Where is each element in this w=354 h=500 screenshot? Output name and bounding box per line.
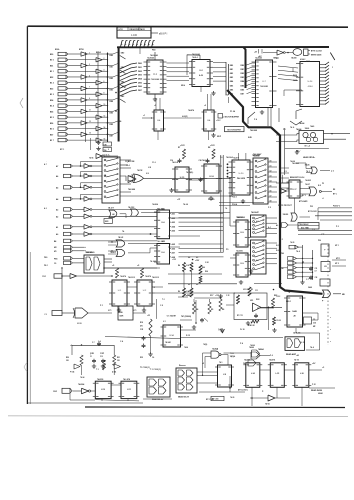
svg-text:T·1 C100 (1): T·1 C100 (1) <box>150 369 161 371</box>
svg-text:+5: +5 <box>202 363 204 365</box>
svg-text:BIT CLOCK: BIT CLOCK <box>308 211 318 213</box>
svg-text:DB5: DB5 <box>138 82 142 84</box>
svg-text:RE: RE <box>333 189 335 191</box>
svg-text:U-20: U-20 <box>239 173 245 175</box>
svg-text:74LS04: 74LS04 <box>226 156 234 159</box>
svg-text:U·1: U·1 <box>163 321 166 323</box>
svg-text:P·2: P·2 <box>312 229 315 231</box>
svg-text:74·05: 74·05 <box>290 241 294 244</box>
svg-text:DB3: DB3 <box>121 96 124 98</box>
svg-text:+5: +5 <box>204 105 206 107</box>
svg-text:A·3: A·3 <box>44 207 47 210</box>
svg-text:P·22: P·22 <box>312 384 316 386</box>
svg-text:74LS04: 74LS04 <box>152 203 158 206</box>
svg-text:C11: C11 <box>255 290 258 292</box>
svg-text:SECTOR BUFFER: SECTOR BUFFER <box>227 130 241 132</box>
svg-text:·4: ·4 <box>322 197 324 200</box>
svg-text:J-100: J-100 <box>131 34 138 37</box>
svg-text:DB6: DB6 <box>241 89 245 91</box>
svg-text:74LS(4): 74LS(4) <box>212 348 219 351</box>
svg-text:DB3: DB3 <box>138 75 142 77</box>
svg-text:6B7: 6B7 <box>230 94 233 96</box>
svg-text:C·1: C·1 <box>280 239 283 241</box>
svg-text:WRITE PROTECT: WRITE PROTECT <box>278 205 293 207</box>
svg-text:A01: A01 <box>172 213 175 216</box>
svg-text:+12V: +12V <box>216 120 221 122</box>
svg-text:B1 0: B1 0 <box>50 60 54 62</box>
svg-text:6B4: 6B4 <box>230 80 233 83</box>
svg-text:74·1: 74·1 <box>219 361 222 364</box>
svg-text:C30: C30 <box>313 323 316 325</box>
svg-text:D·01: D·01 <box>276 245 280 247</box>
svg-text:74·04: 74·04 <box>80 376 84 379</box>
svg-text:FL·18: FL·18 <box>240 329 245 331</box>
svg-text:( SECTOR BUFFER: ( SECTOR BUFFER <box>224 117 240 119</box>
svg-text:R7 C11: R7 C11 <box>237 315 243 317</box>
svg-text:10: 10 <box>85 174 87 176</box>
svg-text:U·8: U·8 <box>223 374 226 376</box>
svg-text:R1B 2.2K: R1B 2.2K <box>248 325 256 327</box>
svg-text:DB7: DB7 <box>138 90 142 92</box>
svg-text:74LS86: 74LS86 <box>128 188 136 191</box>
svg-text:74L86: 74L86 <box>305 164 310 167</box>
svg-text:Q1R2: Q1R2 <box>90 353 94 355</box>
svg-text:74004: 74004 <box>250 344 255 347</box>
svg-text:U·8: U·8 <box>148 167 151 169</box>
svg-text:R22: R22 <box>256 299 259 301</box>
svg-text:Q·1: Q·1 <box>218 329 221 331</box>
svg-text:DB1: DB1 <box>138 67 142 69</box>
svg-text:B4: B4 <box>54 240 56 243</box>
svg-text:R6: R6 <box>178 291 180 293</box>
svg-text:A03: A03 <box>172 221 175 224</box>
svg-text:+: + <box>330 317 331 319</box>
svg-text:WRITE GATE: WRITE GATE <box>311 54 322 57</box>
svg-text:P40·1: P40·1 <box>286 300 291 303</box>
svg-text:A6: A6 <box>56 175 58 178</box>
svg-text:M2: M2 <box>54 247 57 249</box>
svg-text:6B6: 6B6 <box>230 89 233 91</box>
svg-text:74LS240: 74LS240 <box>85 251 92 254</box>
svg-text:74LS·4: 74LS·4 <box>172 161 179 164</box>
svg-text:P40: P40 <box>152 49 155 52</box>
svg-text:+12V: +12V <box>188 291 193 293</box>
svg-text:P·4: P·4 <box>270 354 273 357</box>
svg-text:C10: C10 <box>100 356 103 358</box>
svg-text:CQBR·748: CQBR·748 <box>125 160 134 163</box>
svg-text:6B5: 6B5 <box>230 85 233 87</box>
svg-text:74LS047: 74LS047 <box>252 154 260 157</box>
svg-text:DB0: DB0 <box>138 63 142 65</box>
svg-text:B54: B54 <box>50 99 53 102</box>
svg-text:U·4: U·4 <box>157 119 160 122</box>
svg-text:5448: 5448 <box>308 286 312 289</box>
svg-text:CLR: CLR <box>53 391 58 393</box>
svg-text:+12V: +12V <box>210 145 215 147</box>
svg-text:74LS74: 74LS74 <box>128 276 136 279</box>
svg-text:6B2: 6B2 <box>230 73 233 75</box>
svg-text:MEAD SEL·W: MEAD SEL·W <box>178 396 189 399</box>
svg-text:74LS244: 74LS244 <box>192 53 201 56</box>
svg-text:BT·C100·: BT·C100· <box>206 399 215 401</box>
svg-text:R51: R51 <box>117 357 120 359</box>
svg-text:BYTE CLOCK: BYTE CLOCK <box>311 51 323 53</box>
svg-text:15: 15 <box>89 133 91 135</box>
svg-text:C·9: C·9 <box>160 305 163 307</box>
svg-text:74LS90: 74LS90 <box>250 129 258 132</box>
svg-text:PAL16R8: PAL16R8 <box>237 177 245 180</box>
svg-text:4·2: 4·2 <box>256 259 259 262</box>
svg-text:A05: A05 <box>172 243 175 246</box>
svg-text:330: 330 <box>117 360 120 362</box>
svg-text:+: + <box>330 341 331 343</box>
svg-text:(BT CLOCK ): (BT CLOCK ) <box>238 390 248 392</box>
svg-text:74LS·R: 74LS·R <box>233 157 240 160</box>
svg-text:B51: B51 <box>50 65 53 67</box>
svg-text:BT50: BT50 <box>79 49 84 51</box>
svg-text:R4: R4 <box>196 308 198 311</box>
svg-text:DB3: DB3 <box>110 89 113 91</box>
svg-text:74LS74: 74LS74 <box>152 276 160 279</box>
svg-text:74B04: 74B04 <box>258 348 265 351</box>
svg-text:T1 C100 (1): T1 C100 (1) <box>140 367 150 369</box>
svg-text:4·7: 4·7 <box>256 220 259 223</box>
svg-text:A05: A05 <box>172 230 175 233</box>
svg-text:4164: 4164 <box>308 86 314 88</box>
svg-text:P34·4: P34·4 <box>232 196 237 199</box>
svg-text:74·S·: 74·S· <box>290 126 295 129</box>
svg-text:P2: P2 <box>322 183 324 185</box>
svg-text:L-35: L-35 <box>275 373 279 375</box>
svg-text:1: 1 <box>332 67 333 69</box>
svg-text:A1: A1 <box>56 226 58 229</box>
svg-text:PB1: PB1 <box>54 258 58 260</box>
svg-text:R1·2.2: R1·2.2 <box>277 320 282 322</box>
svg-text:R8: R8 <box>208 147 210 149</box>
svg-text:T·1: T·1 <box>96 369 99 371</box>
svg-text:B·C +6: B·C +6 <box>305 146 310 148</box>
svg-text:DB7: DB7 <box>241 94 245 96</box>
svg-text:C4: C4 <box>152 356 154 359</box>
svg-text:DB0: DB0 <box>110 55 113 57</box>
svg-text:74LS05: 74LS05 <box>305 179 311 182</box>
svg-text:T·2: T·2 <box>162 299 165 301</box>
svg-text:9: 9 <box>108 149 109 151</box>
svg-text:R5: R5 <box>196 257 198 259</box>
svg-text:B·2: B·2 <box>318 185 321 187</box>
svg-text:B1 3: B1 3 <box>50 94 54 96</box>
svg-text:DB5: DB5 <box>110 112 113 114</box>
svg-text:DB4: DB4 <box>110 100 113 103</box>
svg-text:+5: +5 <box>322 367 324 369</box>
svg-text:HEAD: HEAD <box>318 392 324 395</box>
svg-text:R4: R4 <box>188 256 190 259</box>
svg-text:DB2: DB2 <box>110 78 113 80</box>
svg-text:R8: R8 <box>196 284 198 286</box>
svg-text:12: 12 <box>85 196 87 198</box>
svg-text:11: 11 <box>89 110 91 112</box>
svg-text:BY 2: BY 2 <box>302 195 306 197</box>
svg-text:74·LS74: 74·LS74 <box>123 378 130 381</box>
svg-text:DB0: DB0 <box>241 65 245 67</box>
svg-text:R66: R66 <box>205 271 208 273</box>
svg-text:B1 1: B1 1 <box>50 71 54 73</box>
svg-text:14 FL·18: 14 FL·18 <box>293 332 300 335</box>
svg-text:DB0: DB0 <box>121 53 124 55</box>
svg-text:A01: A01 <box>162 208 165 211</box>
svg-text:74LS244: 74LS244 <box>151 78 160 81</box>
svg-text:▸B 8 P I: ▸B 8 P I <box>159 32 168 35</box>
svg-text:74·: 74· <box>288 291 291 294</box>
svg-text:9 P1: 9 P1 <box>133 310 137 312</box>
svg-text:P·1: P·1 <box>100 305 103 307</box>
svg-text:BT·0: BT·0 <box>122 86 126 88</box>
svg-text:A-50: A-50 <box>199 74 203 77</box>
svg-text:READ DATA: READ DATA <box>311 389 322 392</box>
svg-text:74LS244: 74LS244 <box>150 54 159 57</box>
svg-text:B1 4: B1 4 <box>50 105 54 108</box>
svg-text:C·7: C·7 <box>92 342 95 344</box>
svg-text:D·02: D·02 <box>276 250 280 252</box>
svg-text:DB2: DB2 <box>241 73 245 75</box>
svg-text:R5: R5 <box>211 309 213 311</box>
svg-text:EGC TIME: EGC TIME <box>301 228 309 230</box>
svg-text:74LS04: 74LS04 <box>292 162 300 165</box>
svg-text:DB1: DB1 <box>110 66 113 68</box>
svg-text:B1 6: B1 6 <box>50 129 54 131</box>
svg-text:U·14: U·14 <box>170 334 174 337</box>
svg-text:B1 2: B1 2 <box>50 83 54 85</box>
svg-text:A4: A4 <box>56 198 58 201</box>
svg-text:8-TK: 8-TK <box>119 29 124 31</box>
svg-text:A3: A3 <box>56 208 58 211</box>
svg-text:U-10: U-10 <box>101 389 105 391</box>
svg-text:DB6: DB6 <box>110 124 113 126</box>
svg-text:U31: U31 <box>250 300 253 302</box>
svg-text:B1 7: B1 7 <box>50 140 54 142</box>
svg-text:DB6: DB6 <box>138 86 142 88</box>
svg-text:74LS74: 74LS74 <box>188 109 194 112</box>
svg-text:74LS74: 74LS74 <box>145 275 151 278</box>
svg-text:R50: R50 <box>66 357 69 359</box>
svg-text:R17: R17 <box>210 295 213 297</box>
svg-text:+5: +5 <box>70 345 72 347</box>
svg-text:C·4: C·4 <box>98 340 101 343</box>
svg-text:PB·1: PB·1 <box>44 265 48 267</box>
svg-text:DB3: DB3 <box>241 77 245 79</box>
svg-text:74LS74: 74LS74 <box>244 359 250 362</box>
svg-text:R18: R18 <box>140 322 143 324</box>
svg-text:MOD: MOD <box>77 323 83 325</box>
svg-text:B1 5: B1 5 <box>50 117 54 119</box>
svg-text:A5: A5 <box>56 186 58 189</box>
svg-text:P·2: P·2 <box>336 226 339 228</box>
svg-text:R22: R22 <box>274 295 277 297</box>
svg-text:A0: A0 <box>56 233 58 236</box>
svg-text:A·1: A·1 <box>268 226 271 229</box>
svg-text:R66: R66 <box>202 267 205 269</box>
svg-text:74·: 74· <box>225 207 228 210</box>
svg-text:B53: B53 <box>50 88 53 90</box>
svg-text:R7: R7 <box>178 147 180 149</box>
svg-text:A07: A07 <box>172 252 175 255</box>
svg-text:MT·1: MT·1 <box>336 258 340 260</box>
svg-text:A7: A7 <box>56 165 58 168</box>
svg-text:P4·+RD: P4·+RD <box>208 198 215 201</box>
svg-text:74·05: 74·05 <box>265 403 270 406</box>
svg-text:DB5: DB5 <box>241 85 245 87</box>
svg-text:C·7: C·7 <box>306 279 309 281</box>
svg-text:74LS04: 74LS04 <box>78 383 84 386</box>
svg-text:C32: C32 <box>315 277 318 279</box>
svg-text:6B3: 6B3 <box>230 77 233 79</box>
svg-text:330: 330 <box>66 360 69 362</box>
svg-text:P·2: P·2 <box>268 207 271 209</box>
svg-text:MT·2: MT·2 <box>335 263 339 265</box>
svg-text:U31·R: U31·R <box>243 289 249 291</box>
svg-text:U30: U30 <box>324 266 327 268</box>
svg-text:U-17: U-17 <box>293 189 297 191</box>
svg-text:U-7: U-7 <box>276 58 279 60</box>
svg-text:DB2: DB2 <box>138 71 142 73</box>
svg-text:74·74: 74·74 <box>294 359 299 362</box>
svg-text:DB4: DB4 <box>241 80 245 83</box>
svg-text:P·1: P·1 <box>283 129 286 131</box>
svg-text:DB7: DB7 <box>110 135 113 137</box>
svg-text:R3: R3 <box>251 289 253 291</box>
svg-text:U·8: U·8 <box>146 173 149 175</box>
svg-text:A·7: A·7 <box>44 163 47 166</box>
svg-text:R52: R52 <box>140 357 143 359</box>
svg-text:74·LS(S)·: 74·LS(S)· <box>186 171 194 174</box>
svg-text:C0: C0 <box>54 263 56 265</box>
svg-text:74LS·4: 74LS·4 <box>202 159 209 162</box>
svg-text:74L574: 74L574 <box>269 359 275 362</box>
svg-text:U·4: U·4 <box>208 119 211 122</box>
svg-text:B50: B50 <box>50 54 53 56</box>
svg-text:R6: R6 <box>188 284 190 286</box>
svg-text:74(S)4: 74(S)4 <box>230 355 235 358</box>
svg-text:74LS+: 74LS+ <box>104 155 111 157</box>
svg-text:U·5: U·5 <box>284 171 287 173</box>
svg-text:11: 11 <box>85 185 87 187</box>
svg-text:B52: B52 <box>50 77 53 79</box>
svg-text:74·2: 74·2 <box>306 170 310 173</box>
svg-text:P3·: P3· <box>226 249 229 251</box>
svg-text:16: 16 <box>104 138 106 140</box>
svg-text:U-24: U-24 <box>308 81 314 83</box>
svg-text:9 P1: 9 P1 <box>108 310 112 312</box>
svg-text:74LS·4: 74LS·4 <box>192 56 198 59</box>
svg-text:+: + <box>330 329 331 331</box>
svg-text:BT·1: BT·1 <box>60 149 64 151</box>
svg-text:1·6: 1·6 <box>220 157 223 159</box>
svg-text:B57: B57 <box>50 134 53 136</box>
svg-text:74·05: 74·05 <box>230 396 234 399</box>
svg-text:HEAD DRIVE+: HEAD DRIVE+ <box>303 156 315 159</box>
svg-text:P22: P22 <box>310 206 313 208</box>
svg-text:+5: +5 <box>154 105 156 107</box>
svg-text:B55: B55 <box>50 111 53 113</box>
svg-text:74LS74: 74LS74 <box>120 275 126 278</box>
svg-text:74L5390: 74L5390 <box>236 250 243 253</box>
svg-text:74LS·R: 74LS·R <box>110 251 117 254</box>
svg-text:74·240: 74·240 <box>150 260 156 263</box>
svg-text:C1DP: C1DP <box>100 353 104 355</box>
svg-text:74(S): 74(S) <box>203 343 208 346</box>
svg-text:A05: A05 <box>162 240 165 243</box>
svg-text:P26: P26 <box>318 240 321 242</box>
svg-text:74L5390: 74L5390 <box>236 216 243 219</box>
svg-text:T47 (P4000): T47 (P4000) <box>181 315 191 318</box>
svg-text:Reamer: Reamer <box>179 365 186 367</box>
svg-text:P1·4: P1·4 <box>126 164 130 167</box>
svg-text:P40: P40 <box>281 252 284 255</box>
svg-text:12: 12 <box>104 115 106 117</box>
svg-text:13: 13 <box>89 121 91 123</box>
svg-text:A2: A2 <box>56 215 58 218</box>
svg-text:MF: MF <box>313 326 315 328</box>
svg-text:74·: 74· <box>122 230 125 233</box>
svg-text:C1: C1 <box>90 356 92 358</box>
svg-text:4164·2: 4164·2 <box>300 58 305 61</box>
svg-text:MT·1: MT·1 <box>335 245 339 247</box>
svg-text:R6: R6 <box>222 309 224 311</box>
svg-text:C31: C31 <box>315 268 318 270</box>
svg-text:M1: M1 <box>54 251 57 253</box>
svg-text:+12: +12 <box>226 95 229 97</box>
svg-text:U-11: U-11 <box>127 389 131 391</box>
svg-text:R·12: R·12 <box>186 335 190 337</box>
svg-text:L-36: L-36 <box>300 373 304 375</box>
svg-text:A06: A06 <box>172 247 175 250</box>
svg-text:6B1: 6B1 <box>230 69 233 71</box>
svg-text:REGISTER PACK: REGISTER PACK <box>130 28 146 31</box>
svg-text:7404: 7404 <box>184 346 188 349</box>
svg-text:74·F32: 74·F32 <box>137 169 142 172</box>
svg-text:+12V: +12V <box>180 145 185 147</box>
svg-text:74LS245: 74LS245 <box>260 85 268 88</box>
svg-text:DB1: DB1 <box>241 69 245 71</box>
svg-text:74LS047: 74LS047 <box>251 211 259 214</box>
svg-text:74LS245: 74LS245 <box>255 57 262 60</box>
svg-text:74·05: 74·05 <box>89 157 93 160</box>
svg-text:C1·6: C1·6 <box>152 162 156 164</box>
svg-text:74LS74: 74LS74 <box>97 378 103 381</box>
svg-text:B56: B56 <box>50 123 53 125</box>
svg-text:READ DEL·AY: READ DEL·AY <box>152 398 164 401</box>
svg-text:6B0: 6B0 <box>230 65 233 67</box>
svg-text:PB0: PB0 <box>44 257 47 259</box>
svg-text:10: 10 <box>104 104 106 106</box>
svg-text:DB6: DB6 <box>118 121 121 123</box>
